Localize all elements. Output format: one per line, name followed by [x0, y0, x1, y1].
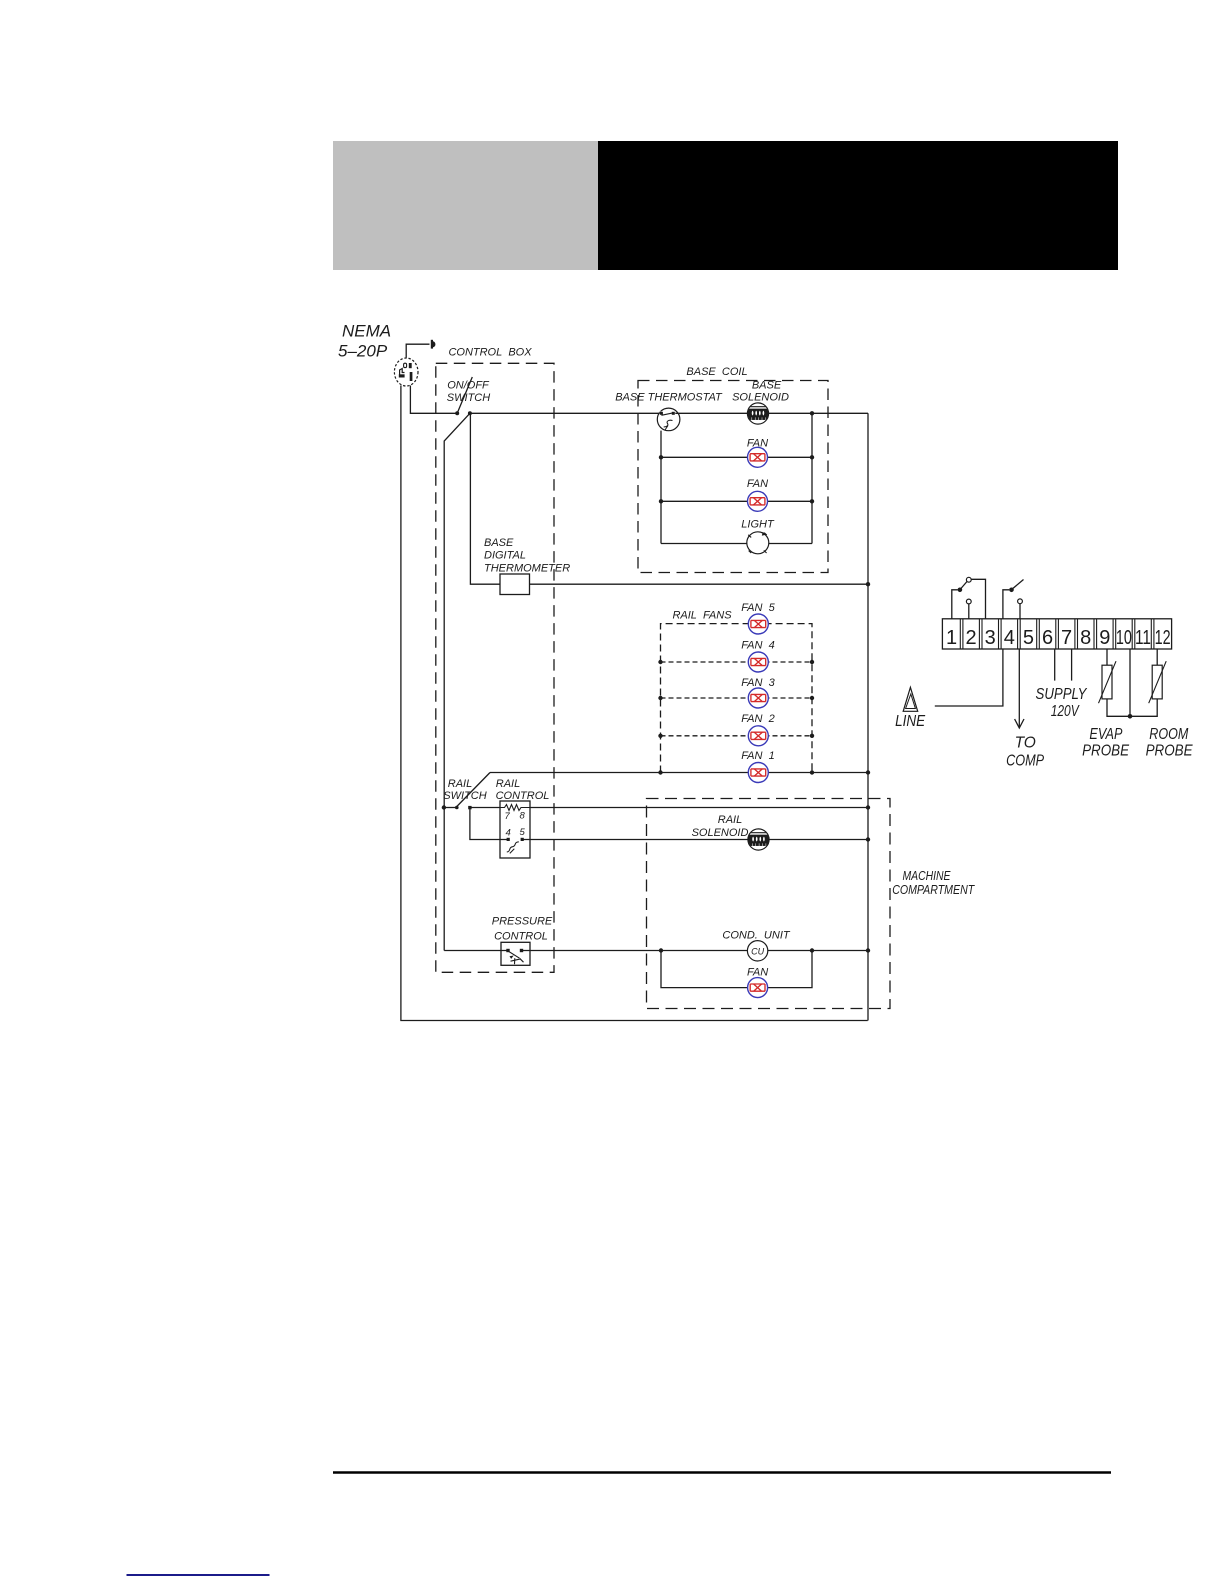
label NEMA 5-20P: [338, 322, 391, 361]
label CONTROL BOX: [448, 347, 532, 359]
junction dot rail solenoid / right bus: [866, 837, 870, 841]
junction dot main bus / inner-right bus: [810, 411, 814, 415]
svg-text:SOLENOID: SOLENOID: [692, 827, 749, 839]
label FAN (base 1): [747, 438, 768, 450]
wire main top bus: [470, 412, 868, 414]
svg-text:1: 1: [946, 627, 957, 649]
svg-text:2: 2: [966, 627, 977, 649]
svg-text:PROBE: PROBE: [1082, 743, 1130, 760]
label BASE COIL: [686, 366, 747, 378]
cord end pin: [431, 340, 436, 349]
svg-text:FAN: FAN: [747, 967, 768, 979]
svg-text:8: 8: [520, 811, 526, 822]
svg-text:120V: 120V: [1051, 703, 1080, 720]
base coil dashed outline: [638, 381, 828, 573]
plug P1 NEMA 5-20P receptacle: [394, 358, 418, 386]
junction dots rail fan 3: [658, 696, 814, 700]
svg-text:4: 4: [1004, 627, 1015, 649]
svg-text:SOLENOID: SOLENOID: [732, 392, 789, 404]
junction dot thermometer line / right bus: [866, 582, 870, 586]
svg-text:5–20P: 5–20P: [338, 342, 388, 361]
svg-text:SWITCH: SWITCH: [447, 392, 490, 404]
svg-text:NEMA: NEMA: [342, 322, 391, 341]
wire light row: [661, 543, 812, 545]
evap probe RT1: [1099, 661, 1117, 703]
rail control pin labels 7 8 4 5: [505, 811, 526, 839]
terminal strip TB1: [942, 619, 1171, 649]
base coil fan M2: [748, 491, 768, 511]
svg-text:PRESSURE: PRESSURE: [492, 916, 553, 928]
wire plug to ON/OFF switch: [410, 386, 455, 414]
wire rail control coil feed: [470, 807, 868, 809]
junction dot rail coil / right bus: [866, 805, 870, 809]
rail fan FAN3: [748, 688, 768, 708]
svg-text:12: 12: [1155, 627, 1171, 649]
wire terminal 11 to probe common: [1129, 649, 1131, 716]
junction dots rail fan 2: [658, 734, 814, 738]
svg-text:CU: CU: [751, 947, 764, 957]
label ON/OFF SWITCH: [447, 380, 490, 405]
svg-text:THERMOMETER: THERMOMETER: [484, 563, 570, 575]
svg-text:DIGITAL: DIGITAL: [484, 550, 526, 562]
svg-text:BASE THERMOSTAT: BASE THERMOSTAT: [615, 392, 723, 404]
svg-text:SUPPLY: SUPPLY: [1036, 686, 1088, 703]
base solenoid L1: [747, 403, 768, 424]
junction dot cond unit right: [810, 948, 814, 952]
svg-text:FAN: FAN: [747, 478, 768, 490]
pressure control PC1: [501, 942, 530, 965]
svg-text:CONTROL: CONTROL: [496, 790, 550, 802]
svg-text:FAN 4: FAN 4: [741, 640, 774, 652]
junction dot cond unit / right bus: [866, 948, 870, 952]
label RAIL FANS: [672, 610, 732, 622]
wire DPST link to lower control circuit: [444, 413, 470, 950]
label EVAP PROBE: [1082, 726, 1130, 760]
label FAN 4: [741, 640, 774, 652]
rail fans dashed outline: [661, 624, 813, 773]
base thermostat T1: [657, 408, 680, 431]
junction dots rail fan 4: [658, 660, 814, 664]
base digital thermometer box: [500, 574, 530, 595]
switch above terminals 1-3: [952, 577, 986, 619]
label RAIL CONTROL: [496, 778, 550, 802]
terminal numbers 1-12: [946, 627, 1171, 649]
svg-text:FAN 2: FAN 2: [741, 713, 774, 725]
svg-text:5: 5: [1023, 627, 1034, 649]
junction dot cond unit left: [659, 948, 663, 952]
wire rail fan 3 row (dashed): [661, 697, 813, 699]
label FAN 5: [741, 602, 775, 614]
footer link underline: [127, 1574, 270, 1576]
label FAN (base 2): [747, 478, 768, 490]
wire rail control switch feed: [470, 808, 508, 840]
wire pressure control row: [444, 950, 868, 952]
header gray block: [333, 141, 598, 270]
wire terminal 5 to comp with arrow: [1015, 649, 1024, 728]
cond unit fan M3: [748, 978, 768, 998]
svg-text:ROOM: ROOM: [1149, 726, 1188, 743]
label FAN 2: [741, 713, 774, 725]
label CU: [751, 947, 764, 957]
footer rule: [333, 1471, 1111, 1473]
rail solenoid L2: [748, 829, 769, 850]
svg-text:5: 5: [520, 827, 526, 838]
svg-text:10: 10: [1116, 627, 1132, 649]
label RAIL SOLENOID: [692, 814, 749, 839]
svg-text:TO: TO: [1015, 735, 1036, 752]
wire base fan row 2: [661, 500, 812, 502]
wire right bus: [867, 413, 869, 1020]
svg-text:EVAP: EVAP: [1089, 726, 1123, 743]
svg-text:3: 3: [985, 627, 996, 649]
rail fan FAN5: [748, 614, 768, 634]
wire cond fan branch: [661, 951, 812, 988]
label FAN 3: [741, 677, 775, 689]
label LINE: [895, 713, 926, 730]
wire LINE to terminal 4: [935, 649, 1003, 706]
svg-text:4: 4: [506, 828, 511, 839]
svg-text:CONTROL BOX: CONTROL BOX: [448, 347, 532, 359]
switch above terminals 4-5: [1003, 580, 1024, 619]
label BASE SOLENOID: [732, 380, 789, 404]
wire inner-left bus of base coil: [660, 431, 662, 544]
svg-text:RAIL: RAIL: [718, 814, 742, 826]
light LT1: [747, 532, 769, 554]
svg-text:LINE: LINE: [895, 713, 926, 730]
rail control U1: [500, 801, 530, 858]
svg-text:7: 7: [1061, 627, 1072, 649]
label ROOM PROBE: [1146, 726, 1194, 760]
svg-text:RAIL FANS: RAIL FANS: [672, 610, 732, 622]
svg-text:COMPARTMENT: COMPARTMENT: [892, 883, 975, 897]
wire terminal 12 to room probe: [1130, 649, 1157, 716]
wire rail fan 4 row (dashed): [661, 661, 813, 663]
label PRESSURE CONTROL: [492, 916, 553, 943]
svg-text:RAIL: RAIL: [448, 778, 472, 790]
label BASE DIGITAL THERMOMETER: [484, 537, 570, 575]
svg-text:MACHINE: MACHINE: [903, 869, 952, 883]
rail fan FAN2: [748, 726, 768, 746]
wire terminal 8 stub: [1071, 649, 1073, 681]
svg-text:COND. UNIT: COND. UNIT: [722, 930, 791, 942]
cond unit CU: [747, 941, 767, 961]
svg-text:BASE: BASE: [484, 537, 514, 549]
junction dot probe common: [1128, 714, 1133, 719]
junction dots rail fan 1 row: [658, 770, 870, 774]
wire rail control out to solenoid: [523, 839, 869, 841]
label TO COMP: [1006, 735, 1045, 770]
svg-text:CONTROL: CONTROL: [494, 931, 548, 943]
svg-text:11: 11: [1135, 627, 1151, 649]
label LIGHT: [741, 519, 775, 531]
wire base fan row 1: [661, 456, 812, 458]
label MACHINE COMPARTMENT: [892, 869, 975, 897]
svg-text:RAIL: RAIL: [496, 778, 520, 790]
wire plug cord to pin: [406, 344, 429, 357]
rail fan FAN4: [748, 652, 768, 672]
junction dots base fan row 1: [659, 455, 814, 459]
label FAN 1: [741, 750, 774, 762]
svg-text:9: 9: [1099, 627, 1110, 649]
header black block: [598, 141, 1118, 270]
label SUPPLY 120V: [1036, 686, 1088, 720]
base coil fan M1: [748, 447, 768, 467]
LINE warning triangle: [903, 687, 918, 711]
wire left bus from plug down and bottom wire: [401, 386, 868, 1021]
wire switch to thermometer line: [470, 413, 868, 584]
svg-text:FAN: FAN: [747, 438, 768, 450]
svg-text:BASE COIL: BASE COIL: [686, 366, 747, 378]
wire terminal 7 stub: [1054, 649, 1056, 681]
svg-text:PROBE: PROBE: [1146, 743, 1194, 760]
control box dashed outline: [436, 363, 554, 972]
svg-text:SWITCH: SWITCH: [443, 790, 486, 802]
svg-text:FAN 3: FAN 3: [741, 677, 775, 689]
label FAN (cond): [747, 967, 768, 979]
svg-text:BASE: BASE: [752, 380, 782, 392]
svg-text:COMP: COMP: [1006, 753, 1045, 770]
svg-text:8: 8: [1080, 627, 1091, 649]
wire rail fan 1 row (solid bus): [490, 772, 868, 774]
on/off switch S1: [455, 377, 472, 415]
label COND. UNIT: [722, 930, 791, 942]
wire terminal 10 to evap probe: [1107, 649, 1130, 716]
svg-text:LIGHT: LIGHT: [741, 519, 775, 531]
rail fan FAN1: [748, 763, 768, 783]
room probe RT2: [1149, 661, 1167, 703]
junction dots base fan row 2: [659, 499, 814, 503]
label BASE THERMOSTAT: [615, 392, 723, 404]
svg-text:ON/OFF: ON/OFF: [447, 380, 490, 392]
svg-text:FAN 1: FAN 1: [741, 750, 774, 762]
machine compartment dashed outline: [647, 799, 891, 1009]
wire inner-right bus of base coil: [811, 413, 813, 543]
label RAIL SWITCH: [443, 778, 486, 802]
svg-text:6: 6: [1042, 627, 1053, 649]
svg-text:FAN 5: FAN 5: [741, 602, 775, 614]
rail switch S2: [442, 773, 490, 810]
wire rail fan 2 row (dashed): [661, 735, 813, 737]
svg-text:7: 7: [505, 811, 511, 822]
